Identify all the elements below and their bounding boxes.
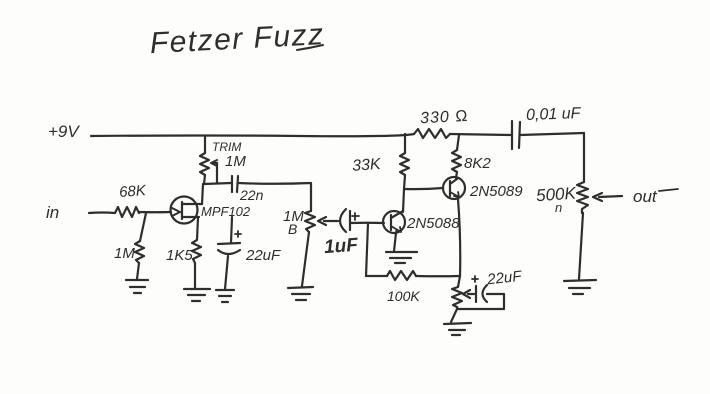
label MPF102 bbox=[201, 204, 251, 219]
potentiometer 500K bbox=[583, 133, 585, 182]
wiper arrow 1M B bbox=[318, 217, 338, 225]
wire rail drop to trim bbox=[204, 136, 206, 153]
wire 100K to emitter line bbox=[416, 275, 460, 277]
resistor 1M input bbox=[135, 241, 144, 263]
svg-text:8K2: 8K2 bbox=[464, 155, 491, 172]
svg-text:MPF102: MPF102 bbox=[201, 204, 251, 219]
wire in lead bbox=[89, 211, 115, 214]
svg-text:TRIM: TRIM bbox=[212, 140, 241, 154]
ground 1K5 bbox=[184, 289, 210, 301]
label 500K bbox=[535, 184, 577, 215]
resistor 8K2 bbox=[452, 150, 461, 172]
resistor 33K bbox=[400, 153, 409, 175]
wire rail drop to 33K bbox=[404, 134, 406, 153]
wire Q2 collector to Q3 base bbox=[404, 188, 443, 189]
svg-text:+9V: +9V bbox=[48, 122, 80, 141]
svg-text:out: out bbox=[633, 187, 658, 206]
label 330ohm bbox=[420, 108, 469, 128]
transistor Q2 2N5088 bbox=[383, 211, 405, 233]
wire 100K left segment bbox=[366, 275, 387, 277]
resistor 1K5 bbox=[192, 217, 201, 288]
wire drain up bbox=[202, 184, 203, 204]
resistor 68K bbox=[115, 207, 139, 217]
label 22uF bbox=[245, 247, 281, 264]
title Fetzer Fuzz bbox=[149, 18, 325, 60]
resistor 100K bbox=[387, 271, 416, 280]
label 1M B bbox=[283, 208, 304, 237]
svg-text:22uF: 22uF bbox=[485, 268, 523, 289]
wire trim to node bbox=[204, 175, 205, 184]
capacitor 22n bbox=[232, 176, 238, 192]
ground 22uF bbox=[216, 290, 234, 302]
label 33K bbox=[352, 156, 383, 175]
wiper arrow emitter trimmer bbox=[463, 290, 474, 298]
label 2N5088 bbox=[406, 215, 460, 232]
wire +9V rail bbox=[91, 134, 414, 136]
trimmer emitter bbox=[452, 287, 462, 307]
capacitor 1uF bbox=[340, 209, 346, 232]
label out bbox=[633, 187, 658, 206]
ground input bbox=[126, 280, 148, 293]
wire rail drop to 8K2 bbox=[457, 135, 459, 150]
capacitor 0.01uF bbox=[512, 121, 520, 149]
label 22n bbox=[239, 187, 264, 203]
svg-text:100K: 100K bbox=[387, 288, 420, 304]
label in bbox=[46, 203, 59, 222]
wire 22n to pot bbox=[238, 183, 311, 211]
svg-text:Fetzer Fuzz: Fetzer Fuzz bbox=[149, 18, 325, 60]
transistor Q3 2N5089 bbox=[443, 177, 465, 199]
label 68K bbox=[119, 182, 148, 201]
ground emitter bbox=[444, 323, 471, 335]
label TRIM 1M bbox=[212, 140, 246, 170]
capacitor 22uF source bypass bbox=[231, 217, 232, 243]
wire to gate bbox=[139, 211, 171, 213]
wire base node down to 100K bbox=[366, 223, 368, 276]
svg-text:0,01 uF: 0,01 uF bbox=[526, 105, 582, 124]
svg-text:1K5: 1K5 bbox=[166, 247, 193, 264]
svg-text:1uF: 1uF bbox=[323, 235, 360, 258]
trimmer TRIM 1M bbox=[200, 153, 209, 175]
wiper arrow 500K bbox=[593, 193, 622, 201]
svg-text:22n: 22n bbox=[239, 187, 264, 203]
resistor 330ohm bbox=[414, 129, 450, 138]
wire 33K down to Q2 collector bbox=[403, 175, 405, 212]
wire rail to cap bbox=[450, 134, 512, 135]
label 1M bbox=[114, 245, 135, 262]
transistor Q1 MPF102 bbox=[171, 197, 198, 224]
wire Q3 emitter down bbox=[458, 199, 460, 287]
svg-text:1M: 1M bbox=[225, 153, 246, 170]
wire 8K2 to Q3 collector bbox=[456, 172, 457, 178]
wire pot to ground bbox=[302, 232, 309, 286]
label 22uF emitter bbox=[485, 268, 523, 289]
label 100K bbox=[387, 288, 420, 304]
wire Q2 emitter to ground bbox=[394, 233, 396, 251]
svg-text:B: B bbox=[288, 221, 297, 237]
svg-text:330 Ω: 330 Ω bbox=[420, 108, 469, 128]
wire junction down to 1M bbox=[140, 213, 146, 241]
wire node to 22n bbox=[204, 183, 231, 184]
svg-text:68K: 68K bbox=[119, 182, 148, 201]
svg-text:1M: 1M bbox=[114, 245, 135, 262]
svg-text:2N5088: 2N5088 bbox=[406, 215, 460, 232]
label 1K5 bbox=[166, 247, 193, 264]
capacitor 22uF emitter bbox=[475, 286, 477, 302]
node +9V label bbox=[48, 122, 80, 141]
wire 1M to ground bbox=[137, 263, 139, 279]
label 1uF bbox=[323, 235, 360, 258]
ground pot bbox=[288, 287, 313, 300]
svg-text:2N5089: 2N5089 bbox=[469, 183, 523, 200]
wire trimmer to ground bbox=[451, 309, 457, 322]
label 0.01uF bbox=[526, 105, 582, 124]
ground Q2 bbox=[386, 252, 417, 263]
wire pot to ground bbox=[579, 213, 583, 279]
svg-text:22uF: 22uF bbox=[245, 247, 281, 264]
svg-text:33K: 33K bbox=[352, 156, 383, 175]
svg-text:n: n bbox=[555, 200, 562, 215]
potentiometer 1M B bbox=[305, 211, 315, 232]
label 8K2 bbox=[464, 155, 491, 172]
label 2N5089 bbox=[469, 183, 523, 200]
wire cap loop to trimmer bottom bbox=[457, 294, 504, 309]
wire cap to base bbox=[350, 222, 384, 224]
wire cap to right corner bbox=[520, 133, 584, 135]
ground 500K bbox=[564, 280, 596, 294]
svg-text:in: in bbox=[46, 203, 59, 222]
